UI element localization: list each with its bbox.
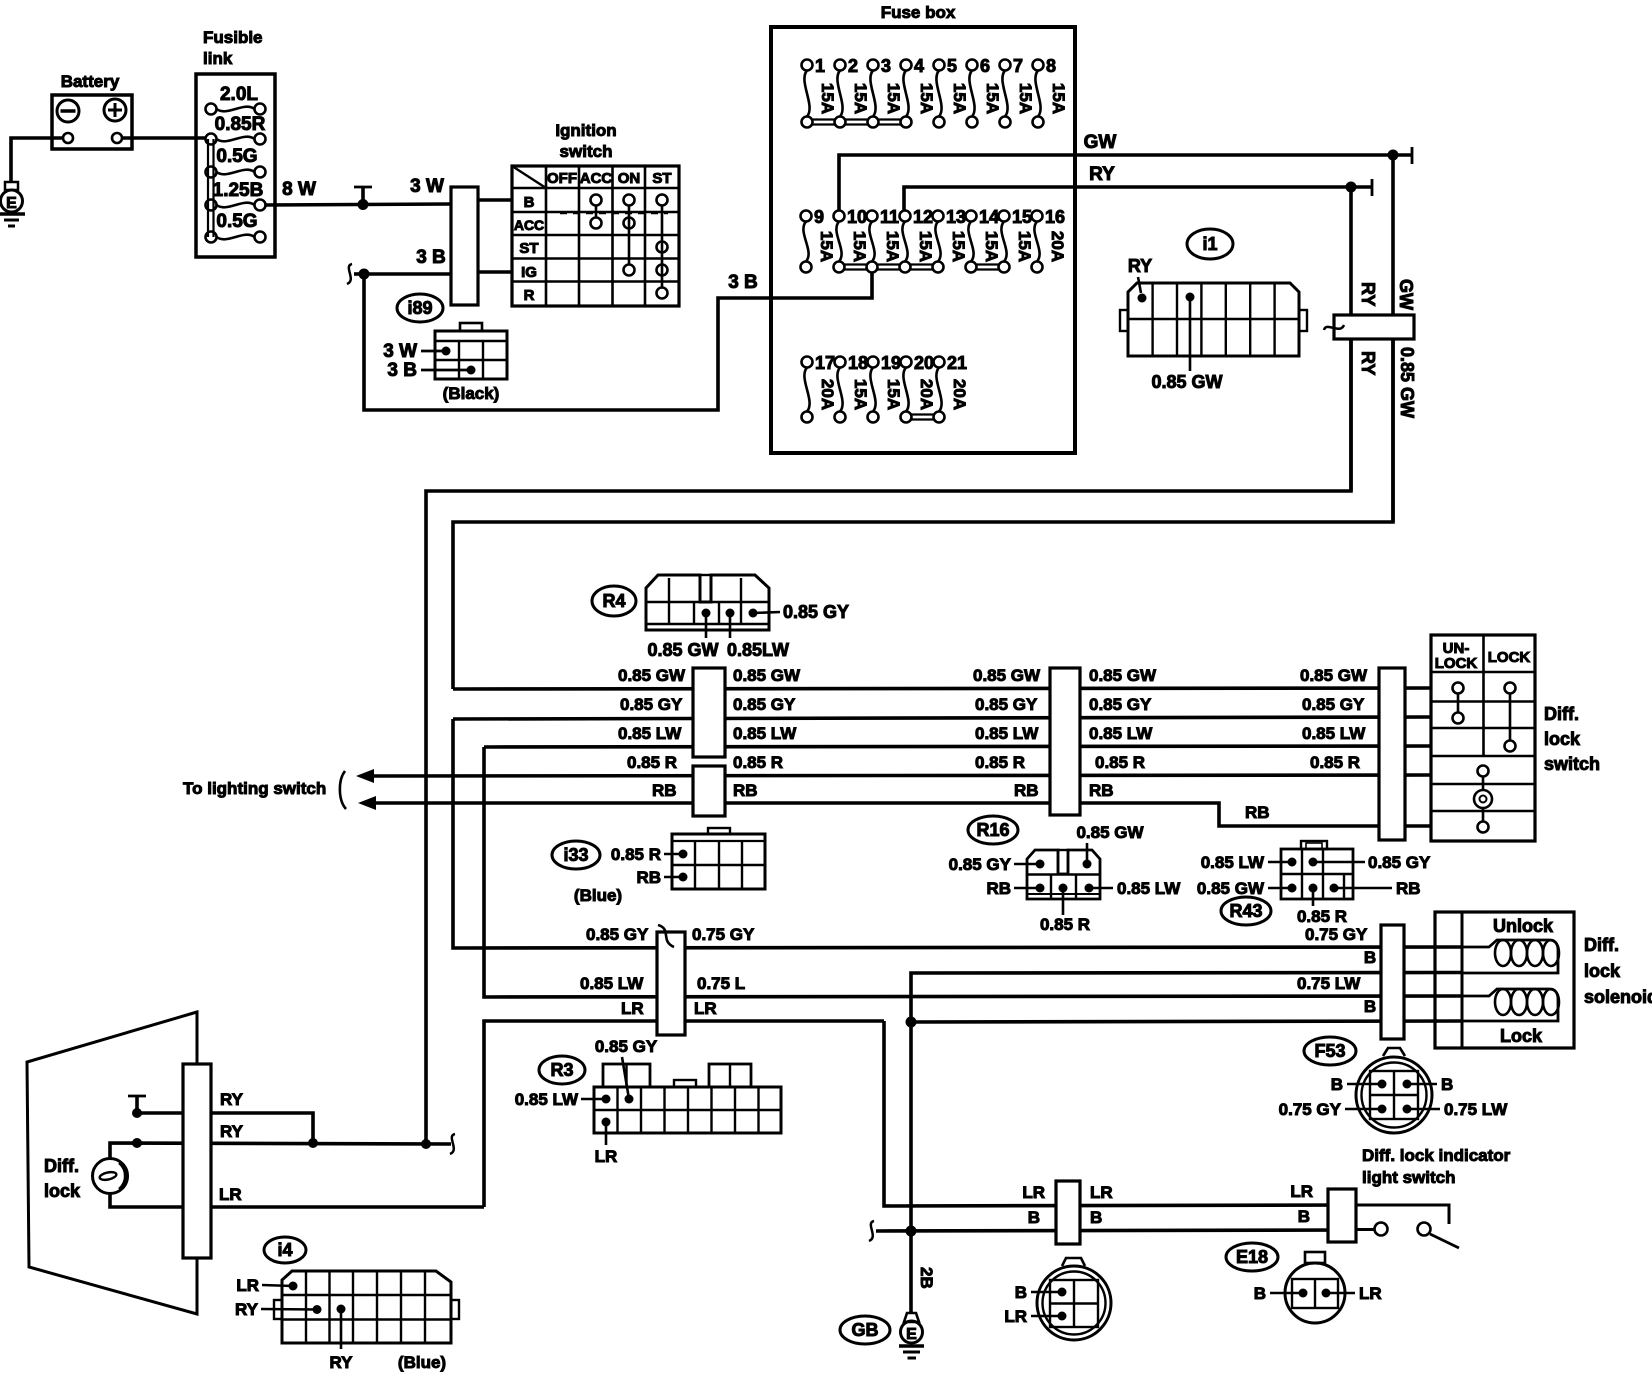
connector F53 (1304, 1037, 1356, 1065)
svg-text:ACC: ACC (514, 217, 544, 233)
battery (52, 72, 132, 149)
svg-text:LR: LR (1290, 1182, 1313, 1201)
fuse 20 (901, 353, 937, 423)
svg-text:0.75 GY: 0.75 GY (692, 925, 755, 944)
svg-text:0.75 LW: 0.75 LW (1297, 974, 1361, 993)
svg-text:0.85 LW: 0.85 LW (1117, 879, 1181, 898)
svg-text:B: B (1364, 997, 1376, 1016)
i33 color label (574, 886, 622, 905)
svg-text:0.5G: 0.5G (216, 146, 257, 167)
connector bar B1 upper (693, 668, 725, 757)
svg-text:(Black): (Black) (443, 384, 500, 403)
svg-text:0.85 R: 0.85 R (975, 753, 1025, 772)
connector i33 housing (672, 828, 765, 889)
diff lock switch table (1431, 635, 1600, 841)
svg-text:IG: IG (521, 264, 537, 281)
indicator switch contacts (1356, 1205, 1459, 1248)
svg-text:ST: ST (519, 240, 538, 257)
svg-text:(Blue): (Blue) (398, 1353, 446, 1372)
diff lock indicator light switch label (1362, 1146, 1511, 1187)
fusible link bus (208, 139, 214, 237)
svg-text:19: 19 (881, 353, 901, 373)
svg-text:0.85 GY: 0.85 GY (1089, 695, 1152, 714)
i4 pin RY (left) (235, 1300, 322, 1319)
svg-text:RY: RY (330, 1353, 354, 1372)
svg-text:2: 2 (848, 56, 858, 76)
svg-text:Fuse box: Fuse box (881, 3, 956, 22)
svg-text:LR: LR (1004, 1307, 1027, 1326)
svg-text:i1: i1 (1202, 234, 1217, 254)
svg-text:20A: 20A (950, 379, 969, 410)
fuse 21 (934, 353, 970, 423)
fuse 18 (835, 353, 871, 423)
svg-text:15A: 15A (949, 231, 968, 262)
svg-text:0.85 R: 0.85 R (1310, 753, 1360, 772)
svg-text:0.85 R: 0.85 R (627, 753, 677, 772)
svg-text:To lighting switch: To lighting switch (183, 779, 326, 798)
connector E18 housing (1285, 1252, 1345, 1323)
svg-text:LOCK: LOCK (1435, 655, 1478, 672)
svg-text:GB: GB (852, 1320, 879, 1340)
wire B bottom row (869, 1207, 1357, 1241)
i4 pin LR (236, 1276, 297, 1295)
wire B down to ground (909, 1022, 913, 1313)
svg-text:ON: ON (618, 170, 641, 187)
fusible link box (196, 28, 275, 257)
fuse 6 (967, 56, 1003, 128)
svg-text:Unlock: Unlock (1493, 916, 1554, 936)
connector i1 (1187, 229, 1233, 259)
svg-text:18: 18 (848, 353, 868, 373)
connector E18 (1226, 1243, 1278, 1271)
svg-text:GW: GW (1396, 279, 1416, 310)
svg-text:0.85 GW: 0.85 GW (647, 640, 718, 660)
wire 0.85GY to 0.75GY (453, 719, 1462, 948)
fusible link 0.85R (206, 114, 266, 145)
ground E (bottom) (899, 1313, 924, 1358)
net label 0.85GW below bar (1397, 347, 1417, 418)
svg-text:8 W: 8 W (282, 179, 316, 200)
fuse 8 (1033, 56, 1069, 128)
diff lock housing (27, 1012, 197, 1314)
svg-text:0.85 R: 0.85 R (1095, 753, 1145, 772)
wire battery positive to fusible link (122, 136, 205, 140)
fuse 11 (867, 207, 903, 273)
svg-text:15: 15 (1012, 207, 1032, 227)
connector i89 (397, 294, 443, 322)
svg-text:OFF: OFF (547, 170, 577, 187)
svg-text:3 B: 3 B (728, 272, 758, 293)
svg-text:Diff.: Diff. (1584, 935, 1619, 955)
svg-text:B: B (1028, 1208, 1040, 1227)
svg-text:0.85 LW: 0.85 LW (1201, 853, 1265, 872)
svg-text:B: B (1298, 1207, 1310, 1226)
R16 pin 0.85GY (949, 855, 1045, 874)
connector bar B8 (diff lock) (183, 1064, 211, 1258)
svg-text:20: 20 (914, 353, 934, 373)
svg-text:light switch: light switch (1362, 1168, 1456, 1187)
svg-text:2B: 2B (917, 1267, 936, 1289)
fuse 13 (933, 207, 969, 273)
connector bar B1 lower (693, 766, 725, 816)
svg-text:R4: R4 (602, 591, 625, 611)
svg-text:15A: 15A (1049, 83, 1068, 114)
svg-text:0.85 GW: 0.85 GW (1397, 347, 1417, 418)
svg-text:8: 8 (1046, 56, 1056, 76)
wire RY vertical right bus (1349, 187, 1353, 491)
svg-text:0.75 LW: 0.75 LW (1444, 1100, 1508, 1119)
junction B upper (906, 1017, 917, 1028)
fuse 15 (999, 207, 1035, 273)
connector bar (right bus) (1324, 315, 1414, 339)
svg-text:B: B (524, 194, 535, 211)
ignition contacts ON column (624, 195, 635, 276)
wire row 0.85GW (453, 666, 1431, 689)
wire lamp to LR (110, 1185, 484, 1207)
svg-text:15A: 15A (884, 83, 903, 114)
wire row 0.85GY (453, 695, 1431, 719)
round connector (B/LR) (1037, 1258, 1111, 1340)
svg-text:1: 1 (815, 56, 825, 76)
connector R3 (539, 1056, 585, 1084)
svg-text:0.85 GY: 0.85 GY (1368, 853, 1431, 872)
svg-text:0.85 GW: 0.85 GW (733, 666, 801, 685)
svg-text:0.85 LW: 0.85 LW (975, 724, 1039, 743)
R43 pin RB (1330, 879, 1421, 898)
connector R4 (592, 586, 636, 616)
wire GW vertical right bus (1391, 155, 1395, 522)
svg-text:RB: RB (1396, 879, 1421, 898)
svg-text:15A: 15A (851, 379, 870, 410)
svg-text:0.85 GY: 0.85 GY (620, 695, 683, 714)
svg-text:15A: 15A (883, 231, 902, 262)
R16 pin RB (986, 879, 1044, 898)
svg-text:R3: R3 (550, 1060, 573, 1080)
fuse 16 (1032, 207, 1068, 273)
unlock coil (1462, 940, 1559, 973)
svg-text:9: 9 (814, 207, 824, 227)
svg-text:Diff.: Diff. (44, 1156, 79, 1176)
svg-text:0.75 GY: 0.75 GY (1279, 1100, 1342, 1119)
connector bar B5 (1056, 1181, 1080, 1244)
svg-text:i33: i33 (563, 845, 588, 865)
fusible link 2.0L (206, 84, 266, 115)
svg-text:0.75 L: 0.75 L (697, 974, 745, 993)
R4 pin 0.85LW (726, 609, 790, 661)
ground GB label (840, 1316, 890, 1344)
R16 pin 0.85R (1040, 884, 1090, 935)
svg-text:0.85 GY: 0.85 GY (1302, 695, 1365, 714)
connector R4 housing (646, 575, 769, 630)
svg-text:RY: RY (220, 1122, 244, 1141)
fuse 2 (835, 56, 871, 128)
wire B to unlock coil (911, 948, 1462, 1022)
wire bar to ignition B (478, 198, 512, 202)
junction 8W branch (354, 187, 372, 210)
connector F53 housing (1356, 1048, 1432, 1133)
svg-text:Diff.: Diff. (1544, 704, 1579, 724)
fuse 3 (868, 56, 904, 128)
svg-text:RB: RB (1014, 781, 1039, 800)
svg-text:15A: 15A (850, 231, 869, 262)
svg-text:15A: 15A (1016, 83, 1035, 114)
wire 8W/3W (265, 176, 451, 205)
E18 pin LR (1322, 1284, 1382, 1303)
diff lock switch contacts UNLOCK (1453, 683, 1464, 724)
svg-text:0.85 R: 0.85 R (611, 845, 661, 864)
svg-text:0.85 LW: 0.85 LW (733, 724, 797, 743)
net label 2B (917, 1267, 936, 1289)
svg-text:B: B (1441, 1075, 1453, 1094)
svg-text:0.85 GY: 0.85 GY (733, 695, 796, 714)
svg-text:LR: LR (219, 1185, 242, 1204)
R16 pin 0.85GW (1076, 823, 1144, 869)
fuse bus 14-15 (976, 265, 999, 270)
wire GW long run (453, 339, 1393, 689)
svg-text:link: link (203, 49, 233, 68)
svg-text:20A: 20A (917, 379, 936, 410)
svg-text:3 W: 3 W (383, 341, 417, 362)
junction 3B (347, 264, 370, 284)
fuse 17 (802, 353, 838, 423)
svg-text:12: 12 (913, 207, 933, 227)
svg-text:15A: 15A (917, 83, 936, 114)
wire row 0.85R (370, 753, 1431, 776)
svg-text:21: 21 (947, 353, 967, 373)
R4 pin 0.85GW (647, 609, 718, 661)
svg-text:RB: RB (1089, 781, 1114, 800)
svg-text:0.85 LW: 0.85 LW (1302, 724, 1366, 743)
svg-text:E18: E18 (1236, 1247, 1268, 1267)
svg-text:RB: RB (733, 781, 758, 800)
svg-text:RB: RB (1245, 803, 1270, 822)
wire row RB (with jog) (372, 781, 1431, 826)
svg-text:RB: RB (636, 868, 661, 887)
i33 pin 0.85R (611, 845, 688, 864)
svg-text:Diff. lock indicator: Diff. lock indicator (1362, 1146, 1511, 1165)
i89 pin 3W (383, 341, 450, 362)
svg-text:GW: GW (1084, 132, 1117, 153)
svg-text:Ignition: Ignition (555, 121, 616, 140)
svg-text:15A: 15A (817, 231, 836, 262)
R4 pin 0.85GY (749, 602, 850, 622)
svg-text:0.85 GW: 0.85 GW (1300, 666, 1368, 685)
svg-text:10: 10 (847, 207, 867, 227)
svg-text:0.85R: 0.85R (215, 114, 266, 135)
connector bar B3 (1379, 668, 1405, 840)
connector bar B6 (E18) (1328, 1189, 1356, 1242)
fuse 7 (1000, 56, 1036, 128)
connector i89 housing (435, 323, 507, 379)
svg-text:ACC: ACC (580, 170, 613, 187)
svg-text:0.85 R: 0.85 R (1297, 907, 1347, 926)
i89 pin 3B (387, 360, 475, 381)
R3 pin 0.85GY (595, 1037, 658, 1104)
wire RY2 (lamp feed) (110, 1122, 455, 1158)
ignition switch table (512, 121, 679, 306)
wire bar to ignition IG (478, 270, 512, 274)
connector bar (ignition switch) (451, 187, 478, 305)
svg-text:0.85 GY: 0.85 GY (586, 925, 649, 944)
ground E (battery) (0, 182, 25, 226)
svg-text:LR: LR (1359, 1284, 1382, 1303)
svg-text:LR: LR (595, 1147, 618, 1166)
svg-text:1.25B: 1.25B (213, 180, 264, 201)
ignition contacts ACC column (591, 195, 602, 229)
svg-text:lock: lock (44, 1181, 81, 1201)
wire LR to indicator switch (884, 1021, 1357, 1206)
junction RY (1346, 182, 1357, 193)
svg-text:solenoid: solenoid (1584, 987, 1652, 1007)
wire RY (fuse 12 to right bus) (904, 164, 1372, 210)
svg-text:0.85 GY: 0.85 GY (783, 602, 849, 622)
R43 pin 0.85LW (1201, 853, 1297, 872)
svg-text:14: 14 (979, 207, 999, 227)
wire RY1 (bar to RY2) (137, 1090, 313, 1143)
fuse 19 (868, 353, 904, 423)
diff lock indicator lamp (93, 1159, 128, 1194)
svg-text:RY: RY (1128, 256, 1152, 276)
net label GW above bar (1396, 279, 1416, 310)
svg-text:R: R (524, 287, 535, 304)
svg-text:0.85 R: 0.85 R (1040, 915, 1090, 934)
svg-text:15A: 15A (916, 231, 935, 262)
svg-text:15A: 15A (983, 83, 1002, 114)
svg-text:2.0L: 2.0L (220, 84, 258, 105)
wire row 0.85LW (484, 724, 1431, 747)
net label RY below bar (1358, 351, 1378, 375)
fuse 14 (966, 207, 1002, 273)
connector R43 (1221, 897, 1271, 925)
round connector pin LR (1004, 1307, 1066, 1326)
svg-text:0.85 GW: 0.85 GW (973, 666, 1041, 685)
R43 pin 0.85R (1297, 884, 1347, 927)
svg-text:0.5G: 0.5G (216, 211, 257, 232)
connector R43 housing (1281, 841, 1353, 899)
diff lock switch indicator contacts (1474, 766, 1492, 833)
svg-text:LR: LR (1090, 1183, 1113, 1202)
wire GW (fuse 10 to right bus) (839, 132, 1412, 210)
connector i4 (264, 1237, 306, 1263)
R3 pin LR (595, 1118, 618, 1167)
svg-text:0.85 LW: 0.85 LW (1089, 724, 1153, 743)
svg-text:lock: lock (1584, 961, 1621, 981)
svg-text:i89: i89 (407, 298, 432, 318)
R16 pin 0.85LW (1085, 879, 1182, 898)
svg-text:0.85LW: 0.85LW (727, 640, 789, 660)
svg-text:switch: switch (560, 142, 613, 161)
svg-text:RY: RY (1358, 351, 1378, 375)
svg-text:0.85 LW: 0.85 LW (515, 1090, 579, 1109)
connector bar B4 (lower left) (657, 925, 685, 1035)
svg-text:15A: 15A (1015, 231, 1034, 262)
fuse 12 (900, 207, 936, 273)
connector bar B2 (1050, 668, 1080, 815)
svg-text:4: 4 (914, 56, 924, 76)
fusible link 0.5G (lower) (206, 211, 266, 243)
svg-text:RB: RB (986, 879, 1011, 898)
i4 color label (398, 1353, 446, 1372)
svg-text:RY: RY (235, 1300, 259, 1319)
wire battery negative to ground (11, 138, 63, 182)
svg-text:3 B: 3 B (387, 360, 417, 381)
svg-text:16: 16 (1045, 207, 1065, 227)
svg-text:0.85 GW: 0.85 GW (1197, 879, 1265, 898)
diff lock switch contacts LOCK (1505, 683, 1516, 752)
RY branch T symbol (128, 1096, 146, 1113)
svg-text:15A: 15A (818, 83, 837, 114)
svg-text:3 B: 3 B (416, 247, 446, 268)
svg-text:(Blue): (Blue) (574, 886, 622, 905)
junction RY1/RY2 (132, 1108, 431, 1149)
svg-text:0.85 GY: 0.85 GY (949, 855, 1012, 874)
svg-text:0.75 GY: 0.75 GY (1305, 925, 1368, 944)
i1 pin RY (1128, 256, 1152, 303)
i89 color label (443, 384, 500, 403)
svg-text:0.85 GW: 0.85 GW (1089, 666, 1157, 685)
E18 pin B (1254, 1284, 1308, 1303)
connector i33 (552, 841, 600, 869)
fuse bus 20-21 (911, 415, 934, 420)
svg-text:E: E (6, 195, 17, 212)
fusible link 1.25B (206, 180, 266, 211)
wire B to lock coil (911, 997, 1462, 1022)
svg-text:0.85 LW: 0.85 LW (580, 974, 644, 993)
svg-text:switch: switch (1544, 754, 1600, 774)
svg-text:0.85 GW: 0.85 GW (1151, 372, 1222, 392)
svg-text:11: 11 (880, 207, 899, 227)
F53 pin B left (1331, 1075, 1387, 1094)
i4 pin RY (center) (330, 1305, 354, 1373)
svg-text:0.85 LW: 0.85 LW (618, 724, 682, 743)
fuse bus 1-4 (812, 120, 901, 125)
wire 0.85LW to 0.75LW (484, 747, 1462, 997)
wire LR (row to diff lock lamp) (484, 999, 884, 1207)
connector bar B7 (solenoid) (1381, 925, 1404, 1039)
svg-text:0.85 GW: 0.85 GW (618, 666, 686, 685)
connector i1 housing (1120, 283, 1307, 356)
to lighting switch arrows (183, 769, 376, 810)
svg-text:7: 7 (1013, 56, 1023, 76)
wire RY long run (426, 339, 1351, 1144)
svg-text:B: B (1015, 1283, 1027, 1302)
R43 pin 0.85GW (1197, 879, 1297, 898)
svg-text:LR: LR (1022, 1183, 1045, 1202)
svg-text:15A: 15A (982, 231, 1001, 262)
fuse 4 (901, 56, 937, 128)
svg-text:ST: ST (652, 170, 671, 187)
svg-text:LR: LR (621, 999, 644, 1018)
svg-text:B: B (1254, 1284, 1266, 1303)
R3 pin 0.85LW (515, 1090, 611, 1109)
svg-text:LR: LR (694, 999, 717, 1018)
connector R3 housing (594, 1064, 781, 1133)
svg-text:Lock: Lock (1500, 1026, 1543, 1046)
round connector pin B (1015, 1283, 1067, 1302)
net label RY above bar (1358, 282, 1378, 306)
svg-text:B: B (1331, 1075, 1343, 1094)
svg-text:F53: F53 (1314, 1041, 1345, 1061)
svg-text:20A: 20A (818, 379, 837, 410)
svg-text:Fusible: Fusible (203, 28, 263, 47)
ignition movable contact (dashed) (560, 212, 668, 214)
svg-text:15A: 15A (950, 83, 969, 114)
svg-text:20A: 20A (1048, 231, 1067, 262)
R43 pin 0.85GY (1309, 853, 1432, 872)
fuse 5 (934, 56, 970, 128)
svg-text:E: E (906, 1326, 917, 1343)
svg-text:RY: RY (220, 1090, 244, 1109)
